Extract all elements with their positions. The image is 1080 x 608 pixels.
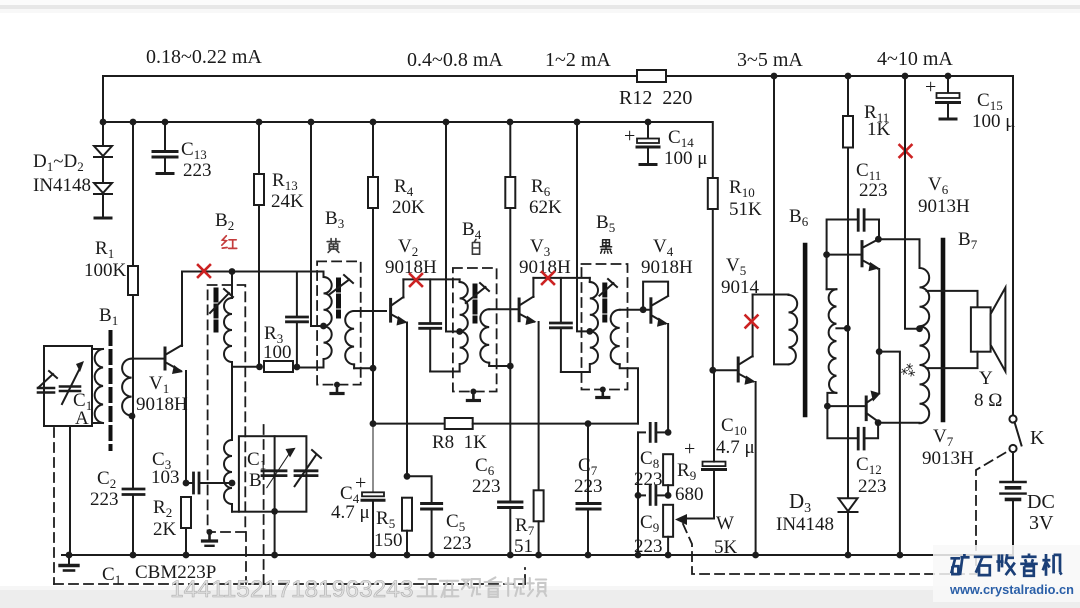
svg-text:4.7 μ: 4.7 μ: [716, 437, 755, 458]
resistor R2: [181, 497, 191, 555]
svg-text:+: +: [925, 76, 936, 98]
junction dot B7 tap: [916, 325, 923, 332]
svg-text:9018H: 9018H: [641, 257, 693, 278]
wire bus to B5 tap: [577, 122, 590, 331]
red x test point V1: [198, 265, 210, 277]
capacitor C15: [937, 76, 960, 119]
svg-text:+: +: [355, 472, 366, 494]
svg-text:3~5 mA: 3~5 mA: [737, 49, 803, 71]
red x test point V5: [746, 316, 758, 328]
svg-text:1~2 mA: 1~2 mA: [545, 49, 611, 71]
resistor R6: [505, 122, 515, 502]
capacitor C3: [186, 473, 232, 493]
wire R10 to V5 base: [713, 369, 738, 371]
svg-text:DC: DC: [1027, 491, 1055, 513]
svg-text:D1~D2: D1~D2: [33, 151, 84, 174]
transistor V7: [827, 352, 880, 422]
wire V2 collector to B4: [403, 278, 459, 280]
C1-B box: [239, 436, 307, 512]
B4 box ground: [467, 392, 479, 401]
transistor V2: [391, 279, 408, 476]
svg-text:223: 223: [574, 476, 603, 497]
B2 dashed box: [208, 285, 246, 532]
svg-text:4~10 mA: 4~10 mA: [877, 48, 953, 70]
diode D2: [94, 183, 112, 194]
red x test point V3: [542, 272, 554, 284]
C1-A main variable cap: [60, 361, 84, 404]
B1 primary coil: [92, 349, 103, 423]
resistor R12: [637, 70, 666, 82]
wire emitters to ground: [879, 352, 900, 555]
svg-text:144115217181963243: 144115217181963243: [170, 576, 413, 603]
B2 adjustable core: [210, 289, 233, 330]
resistor R5: [402, 498, 412, 555]
resistor R1: [128, 122, 138, 416]
svg-text:www.crystalradio.cn: www.crystalradio.cn: [949, 582, 1074, 597]
capacitor C9: [638, 432, 668, 555]
svg-text:A: A: [75, 408, 89, 429]
diodes D1~D2 column wire: [102, 122, 104, 218]
red x test point V2: [410, 274, 422, 286]
junction dots V7: [824, 403, 831, 410]
diode D3: [839, 498, 858, 555]
B7 primary coil: [920, 268, 930, 423]
transistor V5: [738, 295, 755, 556]
ground dots b4: [507, 552, 591, 559]
C1-B divider wire: [274, 436, 276, 512]
wire V7 collector to B7 bottom: [878, 422, 919, 424]
B4 secondary coil: [480, 309, 519, 366]
capacitor C12: [827, 406, 878, 449]
junction dot V5 base node: [709, 367, 716, 374]
resistor R9: [663, 454, 673, 495]
B1 secondary coil: [122, 359, 165, 416]
junction dot V4 base: [640, 306, 647, 313]
capacitor C7: [577, 424, 600, 555]
resistor R8: [373, 418, 638, 429]
B1 ferrite core: [109, 332, 113, 449]
wire C1A box to ground: [69, 426, 71, 555]
capacitor C4: [362, 424, 384, 555]
ground dots c8 area: [635, 552, 672, 559]
junction dot V6 V7 emitter: [876, 348, 883, 355]
wire cap top to B3 primary top: [297, 271, 324, 273]
wire bus to B4 tap: [446, 122, 460, 332]
junction dot B5 tap: [586, 328, 593, 335]
junction dot B4 sec bottom: [507, 363, 514, 370]
junction dot V2 emitter node: [404, 473, 411, 480]
potentiometer W body: [663, 505, 673, 555]
svg-text:100: 100: [263, 342, 292, 363]
resistor R4: [368, 122, 378, 424]
ground dots output: [752, 552, 903, 559]
B3 adjustable core: [330, 275, 354, 316]
junction dots on top wire: [771, 73, 952, 80]
junction dot R8 left: [370, 420, 377, 427]
wire C1-B to ground: [274, 512, 276, 555]
top supply wire: [103, 76, 637, 122]
potentiometer W wiper arrow: [675, 514, 714, 525]
B5 dashed box: [582, 264, 628, 390]
B6 core bar: [803, 245, 808, 415]
C1-B trimmer: [295, 450, 321, 486]
B5 adjustable core: [599, 279, 617, 320]
watermark logo crystalradio: [949, 554, 1074, 598]
wire V3 collector to B5: [533, 277, 589, 279]
svg-text:51: 51: [514, 536, 533, 557]
wire supply column to B7 tap: [905, 76, 920, 329]
resistor R10: [708, 122, 718, 370]
junction dots C8 C9: [635, 429, 672, 499]
junction dot C1-B bottom: [271, 508, 278, 515]
svg-text:8 Ω: 8 Ω: [974, 390, 1002, 411]
junction dot B3 sec bottom: [370, 365, 377, 372]
capacitor C2: [123, 416, 144, 555]
battery DC 3V: [1000, 452, 1025, 499]
svg-text:100 μ: 100 μ: [972, 111, 1015, 132]
mechanical link dashes pot to switch: [683, 450, 1010, 574]
wire V6 collector to B7 top: [878, 239, 919, 268]
junction dot R3 right: [294, 364, 301, 371]
transistor V4 diode connected: [643, 282, 668, 433]
B3 dashed box: [317, 261, 361, 384]
watermark logo halo: [933, 545, 1080, 602]
B3 secondary coil: [345, 311, 386, 368]
B2 box ground: [203, 532, 217, 546]
svg-text:51K: 51K: [729, 199, 762, 220]
svg-text:103: 103: [151, 467, 180, 488]
C1-A trimmer: [38, 371, 57, 393]
B7 core bar: [941, 240, 946, 420]
C1-B main variable cap: [262, 448, 296, 488]
B2 oscillator coil winding: [224, 272, 260, 512]
junction dot B6 tap: [844, 325, 851, 332]
speaker Y: [927, 288, 1006, 372]
svg-text:100 μ: 100 μ: [664, 148, 707, 169]
B6 primary coil: [789, 295, 798, 365]
svg-text:R8 1K: R8 1K: [432, 432, 487, 453]
transistor V6: [827, 240, 880, 352]
svg-text:680: 680: [675, 484, 704, 505]
svg-text:0.18~0.22 mA: 0.18~0.22 mA: [146, 46, 262, 68]
ground symbol left: [60, 555, 78, 571]
junction dots C3: [183, 480, 190, 487]
B5 box ground: [597, 389, 609, 398]
junction dot B3 tap: [320, 323, 327, 330]
second supply bus: [103, 121, 712, 123]
label char huang: [327, 239, 340, 253]
capacitor C6: [499, 502, 522, 555]
svg-text:100K: 100K: [84, 260, 127, 281]
svg-text:R12 220: R12 220: [619, 87, 692, 109]
svg-text:9013H: 9013H: [918, 196, 970, 217]
label char bai: [472, 239, 479, 254]
B5 resonant capacitor: [550, 278, 589, 372]
svg-text:20K: 20K: [392, 197, 425, 218]
svg-text:223: 223: [443, 533, 472, 554]
svg-text:9018H: 9018H: [136, 394, 188, 415]
svg-text:2K: 2K: [153, 519, 177, 540]
svg-text:150: 150: [374, 530, 403, 551]
diode chain end bar: [95, 217, 111, 220]
wire V5 collector to B6 primary top: [753, 294, 789, 296]
resistor R13: [254, 122, 264, 367]
transistor V3: [519, 278, 539, 490]
label char hei: [600, 240, 611, 253]
ground bus dots left: [66, 552, 190, 559]
svg-text:1K: 1K: [867, 119, 891, 140]
B4 resonant capacitor: [420, 279, 460, 371]
svg-text:223: 223: [183, 160, 212, 181]
B3 box ground: [331, 385, 343, 394]
B3 primary coil: [297, 272, 332, 368]
junction dots V6: [823, 251, 830, 258]
B4 dashed box: [453, 268, 497, 392]
svg-text:24K: 24K: [271, 191, 304, 212]
svg-text:+: +: [684, 438, 695, 460]
svg-text:5K: 5K: [714, 537, 738, 558]
svg-text:B: B: [249, 470, 262, 491]
svg-text:223: 223: [859, 180, 888, 201]
capacitor C10: [703, 370, 726, 518]
label red char hong: [222, 236, 237, 249]
svg-text:62K: 62K: [529, 197, 562, 218]
red x test point V6 column: [900, 145, 912, 157]
capacitor C8: [638, 423, 668, 441]
B4 adjustable core: [466, 283, 489, 321]
junction dot B4 tap: [456, 328, 463, 335]
capacitor C14: [637, 122, 659, 165]
junction dot R13 R3: [256, 363, 263, 370]
diode D1: [94, 146, 112, 157]
svg-text:3V: 3V: [1029, 512, 1054, 534]
svg-text:IN4148: IN4148: [33, 175, 91, 196]
wire V1 collector to B2/B3: [182, 271, 297, 273]
resistor R7: [534, 490, 544, 555]
junction dot B1 secondary bottom: [129, 413, 136, 420]
transistor V1: [165, 272, 186, 484]
svg-text:W: W: [716, 513, 734, 534]
svg-text:0.4~0.8 mA: 0.4~0.8 mA: [407, 49, 503, 71]
svg-text:IN4148: IN4148: [776, 514, 834, 535]
wire right edge drop: [1012, 76, 1014, 416]
wire supply to B6 primary bottom: [774, 76, 789, 364]
svg-text:Y: Y: [979, 368, 993, 389]
B6 secondary coil: [827, 289, 848, 406]
capacitor C11: [827, 210, 879, 290]
resistor R11: [843, 76, 853, 498]
capacitor C13: [153, 122, 177, 174]
svg-text:223: 223: [858, 476, 887, 497]
svg-text:9013H: 9013H: [922, 448, 974, 469]
B5 primary coil: [590, 278, 598, 372]
B5 secondary coil: [611, 310, 651, 424]
capacitor C5: [407, 476, 442, 555]
wire bus to B3 tap: [311, 122, 324, 326]
big dashed gang box C1: [54, 425, 525, 584]
svg-text:4.7 μ: 4.7 μ: [331, 502, 370, 523]
svg-text:223: 223: [90, 489, 119, 510]
junction dot C7 top: [585, 420, 592, 427]
svg-text:+: +: [624, 125, 635, 147]
B4 primary coil: [460, 279, 468, 371]
svg-text:223: 223: [472, 476, 501, 497]
junction dot B2 top: [229, 268, 236, 275]
svg-text:K: K: [1030, 427, 1045, 449]
ground dots middle: [370, 552, 435, 559]
switch K: [1009, 415, 1021, 452]
resistor R3: [264, 361, 297, 372]
junction dots on second bus: [100, 119, 652, 126]
C1-A tuning section box: [44, 346, 92, 426]
B3 resonant capacitor: [287, 272, 308, 368]
ground bus: [62, 554, 1013, 556]
